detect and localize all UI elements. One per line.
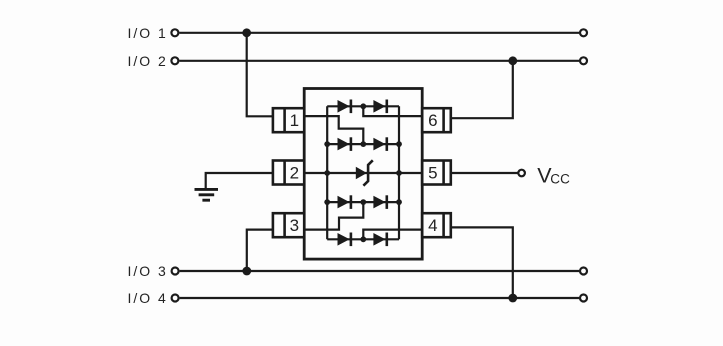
ground xyxy=(195,189,219,200)
wire I/O 3 line xyxy=(180,270,580,272)
diode D7 row E xyxy=(338,233,350,246)
junction I/O1-pin1 xyxy=(242,28,251,37)
wire pin 2 to ground xyxy=(206,173,273,189)
wire row E middle to pin4 internal segment xyxy=(363,230,422,240)
terminal I/O3 left xyxy=(172,268,179,275)
diode D2 row A xyxy=(373,100,385,113)
terminal I/O2 right xyxy=(580,57,587,64)
svg-text:6: 6 xyxy=(428,111,437,130)
svg-text:I/O 1: I/O 1 xyxy=(128,25,168,41)
diode D8 row E xyxy=(373,233,385,246)
junction I/O4-pin4 xyxy=(508,294,517,303)
junction row B left xyxy=(324,141,330,147)
wire I/O1 to pin 1 (vertical drop + horizontal) xyxy=(247,33,273,117)
svg-text:I/O 4: I/O 4 xyxy=(128,290,168,306)
junction I/O3-pin3 xyxy=(242,267,251,276)
junction row D left xyxy=(324,199,330,205)
terminal I/O1 left xyxy=(171,29,178,36)
pin 1 xyxy=(273,108,304,132)
pin 5 xyxy=(422,161,451,185)
wire row B xyxy=(327,143,399,145)
wire pin 5 to Vcc terminal xyxy=(451,172,518,174)
diode D5 row D xyxy=(338,196,350,209)
wire I/O 1 line xyxy=(179,32,579,34)
junction I/O2-pin6 xyxy=(508,56,517,65)
diode D4 row B xyxy=(373,138,385,151)
terminal I/O4 right xyxy=(580,295,587,302)
junction row D middle xyxy=(360,199,366,205)
IC U1 body xyxy=(304,89,422,260)
wire I/O 2 line xyxy=(179,60,579,62)
junction row E middle xyxy=(360,236,366,242)
pin 2 xyxy=(273,161,304,185)
svg-text:2: 2 xyxy=(290,164,299,183)
svg-text:1: 1 xyxy=(290,111,299,130)
wire row E xyxy=(327,238,399,240)
svg-text:I/O 3: I/O 3 xyxy=(128,263,168,279)
wire row A middle to pin6 internal segment xyxy=(363,106,422,116)
wire left rail (GND rail) xyxy=(326,106,328,239)
wire pin 6 to I/O2 (horizontal + vertical rise) xyxy=(451,61,513,118)
svg-text:I/O 2: I/O 2 xyxy=(128,53,168,69)
wire row D xyxy=(327,201,399,203)
pin 3 xyxy=(273,213,304,237)
diode D1 row A xyxy=(338,100,350,113)
junction row C left xyxy=(324,170,330,176)
junction row D right xyxy=(396,199,402,205)
junction row C right xyxy=(396,170,402,176)
junction row B middle xyxy=(360,141,366,147)
zener diode Z1 xyxy=(356,160,373,185)
terminal I/O2 left xyxy=(171,57,178,64)
terminal I/O1 right xyxy=(580,29,587,36)
wire pin3 internal segment with step up to row D xyxy=(304,202,363,230)
wire row C (pin2 to pin5 through zener) xyxy=(304,172,422,174)
wire right rail (VCC rail) xyxy=(398,106,400,239)
wire pin1 internal segment with step down to row B xyxy=(304,116,363,144)
terminal I/O4 left xyxy=(172,295,179,302)
svg-text:5: 5 xyxy=(428,164,437,183)
svg-text:4: 4 xyxy=(428,216,437,235)
junction row B right xyxy=(396,141,402,147)
terminal Vcc xyxy=(518,170,525,177)
wire pin 4 to I/O4 (horizontal + vertical drop) xyxy=(451,227,513,298)
pin 4 xyxy=(422,213,451,237)
diode D6 row D xyxy=(373,196,385,209)
wire row A xyxy=(327,105,399,107)
svg-text:CC: CC xyxy=(550,171,570,186)
svg-text:3: 3 xyxy=(290,216,299,235)
wire I/O 4 line xyxy=(180,297,580,299)
wire I/O3 to pin 3 (vertical rise + horizontal) xyxy=(247,230,273,271)
terminal I/O3 right xyxy=(580,268,587,275)
diode D3 row B xyxy=(338,138,350,151)
pin 6 xyxy=(422,108,451,132)
junction row A middle xyxy=(360,103,366,109)
